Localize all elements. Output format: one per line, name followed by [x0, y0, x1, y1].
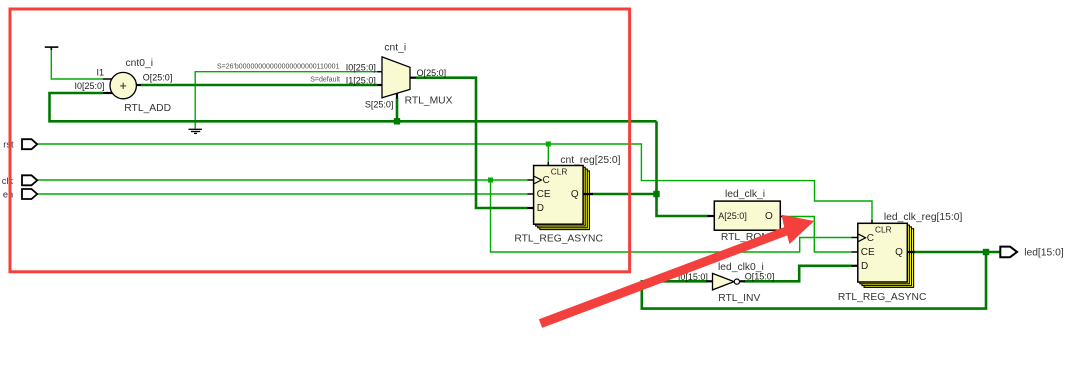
svg-text:led[15:0]: led[15:0] [1024, 248, 1064, 259]
svg-text:O[25:0]: O[25:0] [143, 73, 173, 83]
svg-text:I0[25:0]: I0[25:0] [346, 62, 376, 72]
svg-text:S=default: S=default [310, 76, 340, 83]
svg-text:I1: I1 [97, 67, 105, 77]
svg-text:O: O [765, 211, 773, 222]
svg-text:C: C [867, 233, 874, 244]
svg-text:A[25:0]: A[25:0] [718, 211, 747, 221]
svg-text:O[25:0]: O[25:0] [417, 68, 447, 78]
svg-text:S=26'b000000000000000000001100: S=26'b00000000000000000000110001 [217, 63, 340, 70]
svg-text:led_clk_i: led_clk_i [725, 189, 765, 200]
svg-text:led_clk_reg[15:0]: led_clk_reg[15:0] [884, 212, 963, 223]
svg-text:Q: Q [571, 189, 579, 200]
svg-text:clk: clk [2, 176, 14, 186]
svg-text:cnt0_i: cnt0_i [126, 58, 153, 69]
svg-text:I0[25:0]: I0[25:0] [75, 81, 105, 91]
svg-text:RTL_REG_ASYNC: RTL_REG_ASYNC [838, 292, 927, 303]
svg-text:RTL_MUX: RTL_MUX [405, 95, 453, 106]
svg-text:Q: Q [895, 247, 903, 258]
svg-text:CLR: CLR [551, 167, 568, 177]
svg-text:cnt_reg[25:0]: cnt_reg[25:0] [560, 155, 620, 166]
svg-text:D: D [861, 261, 868, 272]
svg-text:O[15:0]: O[15:0] [745, 271, 775, 281]
svg-text:RTL_INV: RTL_INV [718, 293, 760, 304]
svg-text:CE: CE [537, 189, 551, 200]
svg-text:I1[25:0]: I1[25:0] [346, 75, 376, 85]
svg-text:cnt_i: cnt_i [384, 42, 406, 53]
svg-text:RTL_ADD: RTL_ADD [124, 103, 171, 114]
svg-text:RTL_REG_ASYNC: RTL_REG_ASYNC [514, 234, 603, 245]
svg-text:D: D [537, 203, 544, 214]
svg-text:en: en [3, 189, 13, 199]
svg-text:CLR: CLR [875, 225, 892, 235]
svg-text:S[25:0]: S[25:0] [365, 99, 394, 109]
svg-text:CE: CE [861, 247, 875, 258]
svg-text:+: + [120, 79, 127, 93]
svg-text:C: C [543, 175, 550, 186]
